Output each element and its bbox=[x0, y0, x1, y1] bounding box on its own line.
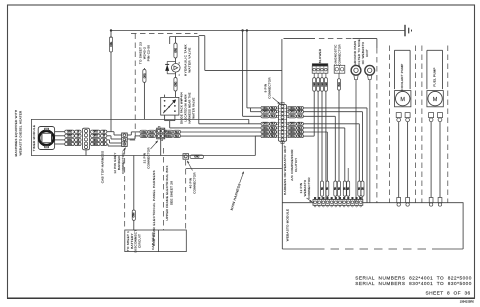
wire to sheet 23 bbox=[143, 68, 145, 119]
svg-text:CIRCUIT: CIRCUIT bbox=[137, 234, 141, 248]
hydraulic valve enclosure box bbox=[170, 37, 199, 124]
svg-text:BLK: BLK bbox=[271, 127, 276, 130]
svg-text:BLK: BLK bbox=[298, 107, 303, 110]
connector X5 label bbox=[263, 77, 280, 105]
coolant pump enclosure dashed bbox=[390, 46, 416, 203]
wire labels 9 pin upper right bbox=[288, 106, 304, 118]
wires 9 pin right to webasto bbox=[304, 108, 368, 203]
svg-text:ORG: ORG bbox=[263, 131, 268, 134]
wires coolant pump down bbox=[399, 122, 408, 198]
wires blower down bbox=[314, 90, 339, 199]
valve name text bbox=[184, 44, 192, 76]
cab rear panel harness text bbox=[152, 170, 156, 246]
svg-text:ORG: ORG bbox=[290, 135, 295, 138]
svg-text:ORG: ORG bbox=[290, 123, 295, 126]
svg-text:ORG: ORG bbox=[290, 111, 295, 114]
wire diode pack down B bbox=[170, 115, 175, 128]
svg-text:CAB TOP HARNESS: CAB TOP HARNESS bbox=[101, 151, 105, 184]
svg-text:UPPER FRAME ELECTRICAL BOX: UPPER FRAME ELECTRICAL BOX bbox=[165, 165, 169, 220]
wire labels group B bbox=[91, 130, 107, 146]
wire valve to diode pack bbox=[175, 91, 177, 97]
wire label W5 bbox=[190, 155, 204, 159]
svg-text:BLK: BLK bbox=[271, 107, 276, 110]
harness on webasto text bbox=[283, 145, 287, 195]
wire valve top bbox=[175, 37, 177, 44]
wire label W4 bbox=[174, 78, 178, 92]
svg-text:ORG: ORG bbox=[174, 48, 177, 53]
wire label W3 bbox=[174, 43, 178, 58]
connector X2 12 pin grey bbox=[122, 133, 128, 146]
connector X3 label bbox=[143, 140, 159, 168]
svg-text:SERIAL NUMBERS 830*4001 TO: SERIAL NUMBERS 830*4001 TO 830*5000 bbox=[355, 281, 472, 286]
svg-text:ORG: ORG bbox=[93, 135, 98, 138]
ground G1 bbox=[405, 25, 412, 37]
ac compressor clutch text bbox=[290, 149, 298, 181]
svg-text:BLK: BLK bbox=[298, 127, 303, 130]
svg-text:ORG: ORG bbox=[143, 73, 146, 78]
node junction J1 bbox=[110, 29, 112, 31]
svg-text:BLK: BLK bbox=[149, 131, 154, 134]
svg-text:ORG: ORG bbox=[67, 139, 72, 142]
diode pack label text bbox=[180, 92, 196, 124]
svg-text:ORG: ORG bbox=[263, 123, 268, 126]
harness boundary dashed upper frame bbox=[185, 160, 187, 230]
svg-text:SEE SHEET 28: SEE SHEET 28 bbox=[170, 181, 174, 205]
wire label W6 bbox=[132, 210, 136, 220]
webasto module box bbox=[282, 203, 463, 249]
svg-text:WEBASTO DIESEL HEATER: WEBASTO DIESEL HEATER bbox=[19, 110, 23, 156]
svg-text:FUEL PUMP: FUEL PUMP bbox=[432, 67, 436, 86]
harness boundary dashed top bbox=[125, 34, 198, 231]
wire diode pack down A bbox=[165, 115, 175, 121]
svg-text:BLK: BLK bbox=[175, 131, 180, 134]
svg-text:ORG: ORG bbox=[290, 127, 295, 130]
svg-text:ORG: ORG bbox=[93, 143, 98, 146]
wire 40 pin riser to row4 bbox=[255, 136, 261, 155]
connector X5 side pins bbox=[277, 107, 289, 137]
wire labels group A bbox=[65, 130, 81, 146]
svg-text:WEBASTO MODULE: WEBASTO MODULE bbox=[286, 209, 290, 242]
svg-text:ORG: ORG bbox=[194, 156, 199, 159]
svg-text:LOCATED IN MAIN: LOCATED IN MAIN bbox=[184, 94, 188, 121]
node junction J3 bbox=[246, 29, 248, 31]
coolant pump connectors on harness bbox=[397, 198, 410, 207]
solenoid valve V1 hydraulic tank water valve bbox=[165, 58, 180, 78]
svg-text:CONNECTOR: CONNECTOR bbox=[193, 172, 197, 194]
svg-text:ORG: ORG bbox=[263, 111, 268, 114]
svg-text:MACHINES EQUIPPED WITH: MACHINES EQUIPPED WITH bbox=[14, 110, 18, 157]
ground pad text bbox=[353, 39, 369, 67]
connector X4 label bbox=[187, 161, 197, 194]
svg-text:ORG: ORG bbox=[67, 143, 72, 146]
timer module label bbox=[32, 125, 36, 151]
svg-text:ORG: ORG bbox=[263, 127, 268, 130]
wire J2 to 9 pin row3 bbox=[243, 31, 261, 117]
cab top harness text bbox=[101, 151, 105, 184]
svg-text:COOLANT PUMP: COOLANT PUMP bbox=[400, 64, 404, 91]
svg-text:BK: BK bbox=[334, 187, 337, 191]
fuel pump terminals bbox=[429, 113, 443, 122]
serial numbers text bbox=[355, 275, 472, 286]
svg-text:PIN C2-50: PIN C2-50 bbox=[147, 45, 151, 62]
net label TO SHEET 23 bbox=[139, 42, 151, 64]
wire X1 stub down bbox=[85, 150, 87, 156]
wire bus row4 long bbox=[181, 135, 261, 137]
svg-text:ORG: ORG bbox=[290, 115, 295, 118]
svg-text:RED: RED bbox=[325, 82, 328, 87]
svg-text:BK: BK bbox=[347, 187, 350, 191]
wire bus row3 long bbox=[181, 131, 261, 133]
timer module U1 bbox=[38, 127, 54, 150]
diagnostic connector bbox=[334, 44, 345, 74]
svg-text:BLK: BLK bbox=[298, 135, 303, 138]
wire main harness boundary step bbox=[199, 36, 282, 71]
wire upper frame to webasto harness bbox=[186, 168, 282, 170]
wire bus row2 long bbox=[170, 127, 261, 129]
svg-text:BLK: BLK bbox=[298, 111, 303, 114]
upper frame box text bbox=[165, 165, 174, 220]
svg-text:ORG: ORG bbox=[93, 139, 98, 142]
wires fuel pump down bbox=[431, 122, 440, 198]
main harness text bbox=[230, 171, 244, 210]
wire extra stub bbox=[347, 168, 349, 181]
connector X6 label bbox=[299, 177, 312, 202]
svg-text:HARNESS NEAR THE: HARNESS NEAR THE bbox=[188, 92, 192, 123]
wire label W1 bbox=[109, 37, 113, 52]
fuel pump enclosure dashed bbox=[422, 46, 448, 203]
fuel pump P2 bbox=[427, 50, 443, 107]
wire labels group F bbox=[165, 130, 180, 138]
svg-text:ORG: ORG bbox=[263, 115, 268, 118]
wires group B to X2 bbox=[107, 132, 122, 146]
svg-text:ORG: ORG bbox=[67, 135, 72, 138]
svg-text:BLK: BLK bbox=[338, 82, 341, 87]
svg-text:BLK: BLK bbox=[298, 131, 303, 134]
connector X6 12 pin webasto bbox=[313, 197, 363, 207]
svg-text:WATER VALVE: WATER VALVE bbox=[192, 97, 196, 118]
wire from J1 down to panel bus bbox=[110, 31, 112, 132]
diode pack D1 W#P464 bbox=[161, 95, 179, 116]
svg-text:ORG: ORG bbox=[93, 131, 98, 134]
svg-text:ORG: ORG bbox=[174, 81, 177, 86]
wire labels webasto connector bbox=[321, 181, 365, 199]
drawing number text bbox=[460, 300, 475, 304]
sheet number text bbox=[426, 291, 471, 297]
svg-text:BLK: BLK bbox=[298, 123, 303, 126]
wire X3 stub down bbox=[160, 139, 162, 156]
svg-text:WATER VALVE: WATER VALVE bbox=[188, 47, 192, 72]
wire labels 9 pin lower right bbox=[288, 122, 304, 138]
svg-text:BLOWER: BLOWER bbox=[318, 48, 322, 63]
svg-text:BLK: BLK bbox=[271, 123, 276, 126]
svg-text:BK: BK bbox=[321, 187, 324, 191]
svg-text:ORG: ORG bbox=[290, 107, 295, 110]
svg-text:BLK: BLK bbox=[298, 115, 303, 118]
svg-text:ORG: ORG bbox=[141, 135, 146, 138]
wires X2 to labels E bbox=[127, 132, 140, 139]
svg-text:10B42SBR0: 10B42SBR0 bbox=[460, 300, 475, 304]
svg-text:CAB REAR: CAB REAR bbox=[151, 232, 155, 250]
svg-text:SHEET 8 OF 36: SHEET 8 OF 36 bbox=[426, 291, 471, 297]
svg-text:ORG: ORG bbox=[110, 42, 113, 47]
svg-text:RED: RED bbox=[313, 82, 316, 87]
cab rear electrical panel box bbox=[31, 119, 255, 155]
svg-text:M: M bbox=[400, 97, 405, 103]
wire labels 9 pin upper left bbox=[261, 106, 277, 118]
svg-text:HARNESS ON WEBASTO UNIT: HARNESS ON WEBASTO UNIT bbox=[283, 145, 287, 195]
svg-text:SERIAL NUMBERS 822*4001 TO: SERIAL NUMBERS 822*4001 TO 822*5000 bbox=[355, 275, 472, 280]
svg-text:BK: BK bbox=[326, 187, 329, 191]
svg-text:BLK: BLK bbox=[271, 115, 276, 118]
svg-text:CONNECTOR: CONNECTOR bbox=[121, 152, 125, 174]
wires timer module to labels bbox=[55, 132, 65, 144]
svg-text:BLK: BLK bbox=[271, 111, 276, 114]
sheet reference box bbox=[125, 230, 187, 253]
svg-text:M: M bbox=[433, 97, 438, 103]
svg-text:CONNECTOR: CONNECTOR bbox=[267, 77, 271, 99]
svg-text:CONNECTOR: CONNECTOR bbox=[307, 177, 311, 199]
svg-text:RED: RED bbox=[317, 82, 320, 87]
svg-text:ORG: ORG bbox=[290, 131, 295, 134]
svg-text:ORG: ORG bbox=[263, 107, 268, 110]
wire labels group E bbox=[140, 130, 155, 138]
svg-text:ORG: ORG bbox=[67, 131, 72, 134]
wire label W2 bbox=[143, 69, 147, 82]
webasto module text bbox=[286, 209, 290, 242]
svg-text:CLUTCH: CLUTCH bbox=[294, 158, 298, 172]
svg-text:ORG: ORG bbox=[167, 131, 172, 134]
node junction J2 bbox=[241, 29, 243, 31]
svg-text:ORG: ORG bbox=[141, 131, 146, 134]
connector X3 31 pin bbox=[155, 126, 166, 140]
wire J3 to 9 pin row1 bbox=[247, 31, 261, 108]
diagnostic wire label bbox=[338, 73, 341, 90]
wire top bus bbox=[111, 30, 405, 32]
wire step to 9 pin row2 bbox=[251, 108, 262, 112]
ring terminal T2 bbox=[365, 65, 375, 202]
wire 9 pin bottom down bbox=[281, 141, 283, 249]
svg-text:CONNECTOR: CONNECTOR bbox=[147, 147, 151, 169]
webasto unit enclosure bbox=[282, 39, 377, 203]
svg-text:BLK: BLK bbox=[271, 131, 276, 134]
svg-text:RED: RED bbox=[321, 82, 324, 87]
connector X2 label bbox=[113, 147, 126, 173]
harness boundary dashed cab rear bbox=[163, 148, 165, 230]
blower connector bbox=[312, 48, 328, 73]
svg-text:BLK: BLK bbox=[149, 135, 154, 138]
wire box edge step to row1 bbox=[199, 119, 261, 123]
fuel pump connectors on harness bbox=[429, 198, 442, 207]
wire to sheet 1 bbox=[133, 156, 135, 231]
svg-text:CONNECTOR: CONNECTOR bbox=[338, 44, 342, 66]
connector X4 40 pin bbox=[183, 154, 189, 160]
ring terminal T1 bbox=[351, 65, 361, 202]
connector X1 timer bbox=[83, 128, 90, 150]
coolant pump terminals bbox=[396, 113, 410, 122]
connector X5 9 pin bbox=[278, 102, 286, 143]
svg-text:BK: BK bbox=[338, 187, 341, 191]
svg-text:BLK: BLK bbox=[271, 135, 276, 138]
svg-text:UNIT: UNIT bbox=[365, 49, 369, 57]
svg-text:BK: BK bbox=[361, 187, 364, 191]
machines equipped note text bbox=[14, 110, 23, 157]
wire labels 9 pin lower left bbox=[261, 122, 277, 138]
blower wire labels bbox=[313, 73, 328, 91]
svg-text:ORG: ORG bbox=[263, 135, 268, 138]
svg-text:ORG: ORG bbox=[167, 135, 172, 138]
svg-text:GRN: GRN bbox=[133, 212, 136, 217]
coolant pump P1 bbox=[395, 50, 411, 107]
svg-text:BLK: BLK bbox=[175, 135, 180, 138]
svg-text:TIMER MODULE: TIMER MODULE bbox=[32, 125, 36, 151]
